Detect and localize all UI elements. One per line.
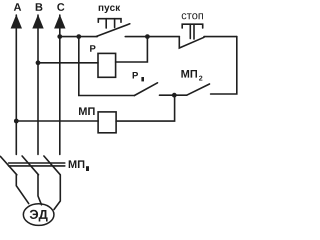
pushbutton SB1 пуск actuator bbox=[98, 19, 121, 23]
junction dot on A bbox=[14, 119, 19, 124]
wire Р coil to top wire junction bbox=[116, 37, 148, 62]
label MP2 contact bbox=[181, 70, 197, 78]
wire right bus down bbox=[211, 37, 237, 94]
arrowhead B bbox=[32, 15, 43, 29]
label P coil bbox=[90, 45, 95, 52]
phase line B bbox=[37, 15, 39, 154]
arrowhead C bbox=[54, 15, 65, 29]
wire from B line to relay Р coil bbox=[38, 62, 98, 64]
wire пуск to стоп bbox=[125, 36, 179, 38]
wire стоп to right bus bbox=[204, 36, 237, 38]
labelA bbox=[14, 3, 21, 11]
arrowhead A bbox=[11, 15, 22, 29]
junction dot пуск branch bbox=[76, 34, 81, 39]
label MP1 switch bbox=[69, 160, 85, 168]
wire from A line to contactor coil МП bbox=[16, 120, 98, 122]
label ED motor bbox=[30, 210, 48, 222]
contact МП2 blade bbox=[187, 84, 210, 95]
phase line A bbox=[15, 15, 17, 154]
labelB bbox=[36, 3, 43, 11]
knife switch МП1 blade C bbox=[44, 156, 60, 175]
label P1 contact bbox=[133, 72, 138, 79]
wire B to motor bbox=[38, 175, 42, 205]
junction dot on B bbox=[36, 60, 41, 65]
subscript 1 of Р1 bbox=[141, 77, 144, 81]
knife switch mechanical bar bbox=[9, 162, 65, 164]
subscript 1 of МП1 bbox=[86, 166, 89, 171]
wire МП2 left bbox=[174, 94, 186, 96]
wire МП coil to МП2 junction bbox=[116, 95, 175, 121]
motor ЭД circle bbox=[23, 204, 54, 226]
wire top control from C to пуск bbox=[60, 36, 97, 38]
labelC bbox=[57, 3, 64, 11]
knife switch МП1 blade B bbox=[22, 156, 38, 175]
phase line C bbox=[59, 15, 61, 154]
relay coil Р bbox=[98, 53, 116, 77]
contactor coil МП bbox=[98, 112, 116, 133]
wire Р1 to МП2 bbox=[160, 94, 175, 96]
junction dot Р coil top bbox=[145, 34, 150, 39]
contact Р1 blade bbox=[134, 83, 157, 96]
wire A to motor bbox=[16, 175, 28, 204]
wire branch down from пуск junction bbox=[79, 37, 135, 96]
junction dot МП2 left bbox=[172, 93, 177, 98]
label stop bbox=[182, 13, 203, 19]
label pusk bbox=[99, 6, 121, 14]
pushbutton SB2 стоп actuator bbox=[182, 24, 203, 28]
wire C to motor bbox=[54, 175, 60, 210]
pushbutton SB1 пуск blade bbox=[97, 24, 130, 37]
pushbutton SB2 стоп blade bbox=[179, 37, 204, 48]
label MP2 subscript bbox=[199, 76, 202, 81]
label MP coil bbox=[79, 107, 95, 115]
knife switch МП1 blade A bbox=[0, 156, 16, 174]
junction dot on C bbox=[57, 34, 62, 39]
